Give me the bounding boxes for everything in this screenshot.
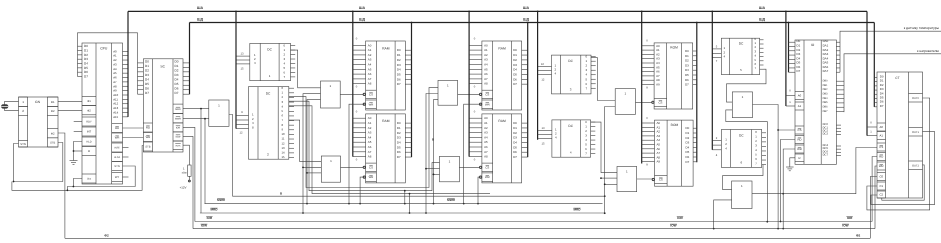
svg-text:C2: C2 <box>879 193 883 197</box>
SHA drop to DC5 DC6 <box>711 11 713 149</box>
svg-text:A6: A6 <box>484 72 488 76</box>
svg-text:A9: A9 <box>657 160 661 164</box>
wire RAM2 WR to MWR <box>360 177 364 204</box>
or-gate F <box>617 167 637 192</box>
wire MWR tap vertical <box>404 191 406 204</box>
wire SC IOR down <box>183 127 195 221</box>
svg-text:DB0: DB0 <box>823 80 828 83</box>
svg-text:D2: D2 <box>397 131 401 135</box>
svg-text:DB7: DB7 <box>823 110 828 113</box>
svg-text:DC: DC <box>739 42 744 46</box>
svg-text:Ucc: Ucc <box>87 178 92 181</box>
svg-text:A5: A5 <box>484 67 488 71</box>
wire gate H to CT CS <box>752 148 877 194</box>
svg-text:ROM: ROM <box>671 123 679 127</box>
CPU D stubs <box>78 46 83 76</box>
svg-text:ШД: ШД <box>197 17 204 21</box>
svg-text:Ф2: Ф2 <box>51 109 55 113</box>
svg-text:D7: D7 <box>686 160 690 164</box>
svg-text:12: 12 <box>541 78 544 81</box>
svg-text:D0: D0 <box>685 49 689 53</box>
svg-text:D4: D4 <box>513 68 517 72</box>
svg-text:OUT2: OUT2 <box>912 164 919 167</box>
svg-text:C1: C1 <box>879 184 883 188</box>
DC5 input stubs <box>712 45 721 63</box>
svg-text:A1: A1 <box>484 48 488 52</box>
svg-text:D3: D3 <box>686 141 690 145</box>
junction on SHA <box>468 11 470 13</box>
SHD drop from SC D pins <box>189 23 191 95</box>
RAM2 D stubs <box>405 123 411 157</box>
ground under CPU <box>70 161 78 165</box>
SHA drop to RAM3 RAM4 A <box>468 11 470 156</box>
junction on SHA <box>235 11 237 13</box>
svg-text:CT: CT <box>895 76 899 80</box>
wire RAM4 WR to MWR <box>478 177 481 204</box>
svg-text:A5: A5 <box>368 140 372 144</box>
svg-text:DC: DC <box>568 124 573 128</box>
svg-text:A4: A4 <box>484 63 488 67</box>
wire gate C to RAM3 CS <box>458 93 481 95</box>
wire MRD tap to gates A B <box>303 94 321 213</box>
svg-text:OUT1: OUT1 <box>912 131 919 134</box>
wire MWR tap to gates A B <box>307 100 321 204</box>
svg-text:кОм: кОм <box>182 171 187 174</box>
wire RAM3 WR to MWR <box>464 104 481 203</box>
crystal BQ1 <box>2 105 8 109</box>
svg-text:CS: CS <box>879 145 883 149</box>
svg-text:D5: D5 <box>686 150 690 154</box>
SHA drop to DC1 DC2 <box>235 11 237 128</box>
RAM4 A stubs <box>469 111 482 162</box>
svg-text:CS: CS <box>369 165 373 169</box>
wire CPU SYN loop <box>12 166 135 190</box>
junction on SHD <box>696 22 698 24</box>
svg-text:RD: RD <box>115 126 119 130</box>
wire GN STB down to loop <box>14 143 63 182</box>
decoder DC5 <box>721 37 759 75</box>
svg-text:DC: DC <box>739 133 744 137</box>
svg-text:Ф2: Ф2 <box>51 131 55 135</box>
svg-text:D7: D7 <box>175 91 179 95</box>
svg-text:ША: ША <box>359 6 366 10</box>
svg-text:RAM: RAM <box>498 119 506 123</box>
svg-text:D3: D3 <box>513 63 517 67</box>
svg-text:D5: D5 <box>397 72 401 76</box>
wire CT OUT2 loop <box>882 165 924 200</box>
wire CT OUT0 to C1 <box>867 98 930 210</box>
svg-text:DA7: DA7 <box>823 69 829 73</box>
svg-text:DC: DC <box>266 91 271 95</box>
decoder DC1 <box>250 43 291 80</box>
svg-text:D7: D7 <box>397 155 401 159</box>
wire DC2 out to gate D <box>289 101 440 191</box>
DC3 input stubs <box>538 63 552 82</box>
junction on SHA <box>711 11 713 13</box>
svg-text:D4: D4 <box>175 77 179 81</box>
wire gate E to ROM1 CS <box>636 101 653 103</box>
svg-text:Ф2: Ф2 <box>87 108 91 112</box>
svg-text:DB6: DB6 <box>823 106 828 109</box>
svg-text:MRD: MRD <box>175 108 181 111</box>
SHA drop to DC3 DC4 <box>537 11 539 139</box>
svg-text:D7: D7 <box>513 82 517 86</box>
svg-text:CS: CS <box>798 128 802 132</box>
wire gate B to RAM2 CS <box>341 166 365 168</box>
svg-text:A3: A3 <box>368 58 372 62</box>
SHA drop to RAM1 RAM2 A <box>352 11 354 156</box>
svg-text:D0: D0 <box>513 48 517 52</box>
svg-text:D3: D3 <box>685 63 689 67</box>
junction on SHA <box>352 11 354 13</box>
svg-text:D7: D7 <box>145 91 149 95</box>
svg-text:D0: D0 <box>145 60 149 64</box>
wire DC6 out7 loop to gate H <box>723 165 763 190</box>
svg-text:Ф1: Ф1 <box>87 99 91 103</box>
svg-text:11: 11 <box>282 137 285 141</box>
svg-text:12: 12 <box>240 131 243 134</box>
svg-text:D4: D4 <box>397 141 401 145</box>
svg-text:DC: DC <box>267 48 272 52</box>
svg-text:STB: STB <box>145 146 150 149</box>
svg-text:A6: A6 <box>368 72 372 76</box>
SC left D stubs <box>138 63 144 94</box>
wire CPU WR to SC WR <box>123 137 144 139</box>
svg-text:A4: A4 <box>484 135 488 139</box>
svg-text:D3: D3 <box>145 73 149 77</box>
RAM D3 <box>480 41 522 110</box>
svg-text:D6: D6 <box>686 155 690 159</box>
svg-text:A0: A0 <box>484 43 488 47</box>
svg-text:D4: D4 <box>686 145 690 149</box>
svg-text:D3: D3 <box>397 136 401 140</box>
CPU RDY stub <box>74 121 82 123</box>
DC1 input stubs <box>236 52 250 70</box>
RAM3 D stubs <box>522 50 528 84</box>
svg-text:WR: WR <box>879 164 884 168</box>
or-gate D <box>440 156 460 182</box>
CPU D bus wrap to SC <box>78 33 138 95</box>
svg-text:ШД: ШД <box>359 17 366 21</box>
svg-text:RDY: RDY <box>86 121 92 124</box>
wire IOW to IO WR <box>783 149 795 229</box>
or-gate D1 memory <box>209 100 229 126</box>
svg-text:15: 15 <box>542 142 545 145</box>
svg-text:к датчику температуры: к датчику температуры <box>904 26 940 30</box>
svg-text:D1: D1 <box>175 64 179 68</box>
svg-text:13: 13 <box>282 146 286 150</box>
svg-text:D5: D5 <box>175 82 179 86</box>
junction on SHA <box>537 11 539 13</box>
svg-text:CPU: CPU <box>100 47 108 51</box>
svg-text:D1: D1 <box>513 126 517 130</box>
wire GN F1 to CPU F1 <box>58 100 82 102</box>
svg-text:C0: C0 <box>879 175 883 179</box>
svg-text:DB4: DB4 <box>823 97 828 100</box>
RAM1 A stubs <box>353 38 366 89</box>
or-gate G <box>732 92 752 118</box>
svg-text:D2: D2 <box>686 136 690 140</box>
IO DC stubs <box>836 125 841 155</box>
svg-text:D0: D0 <box>397 121 401 125</box>
svg-text:D2: D2 <box>145 69 149 73</box>
svg-text:D1: D1 <box>397 53 401 57</box>
RAM D2 <box>363 114 405 183</box>
wire crystal to GN pin1 <box>5 101 19 104</box>
wire RAM1 WR to MWR <box>349 104 364 203</box>
wire gate D1 out to select line <box>229 115 605 197</box>
svg-text:A6: A6 <box>484 145 488 149</box>
svg-text:CS: CS <box>658 100 662 104</box>
DC5 output stubs <box>760 40 764 69</box>
svg-text:A8: A8 <box>368 155 372 159</box>
svg-text:DB5: DB5 <box>823 101 828 104</box>
IOW control line <box>193 228 875 230</box>
heater bus line <box>844 54 941 112</box>
svg-text:Ф2: Ф2 <box>856 233 861 237</box>
decoder DC2 <box>249 86 289 159</box>
svg-text:D6: D6 <box>513 77 517 81</box>
svg-text:D7: D7 <box>84 75 88 79</box>
svg-text:WR: WR <box>369 175 374 179</box>
wire gate D to RAM4 CS <box>459 166 480 168</box>
svg-text:A2: A2 <box>484 126 488 130</box>
svg-text:D3: D3 <box>175 73 179 77</box>
DC6 input stubs <box>712 137 721 157</box>
svg-text:A1: A1 <box>484 121 488 125</box>
svg-text:A1: A1 <box>798 104 802 108</box>
F2 clock line <box>65 237 870 239</box>
svg-text:15: 15 <box>241 67 244 70</box>
CPU WT stub <box>123 176 129 178</box>
svg-text:D5: D5 <box>145 82 149 86</box>
parallel port IO <box>795 39 836 164</box>
svg-text:WR: WR <box>797 147 802 151</box>
svg-text:A3: A3 <box>484 131 488 135</box>
svg-text:D6: D6 <box>397 150 401 154</box>
svg-text:D7: D7 <box>513 155 517 159</box>
svg-text:R: R <box>798 156 800 160</box>
svg-text:ША: ША <box>523 6 530 10</box>
svg-text:RD: RD <box>797 138 801 142</box>
svg-text:A2: A2 <box>484 53 488 57</box>
svg-text:D3: D3 <box>397 63 401 67</box>
DC2 output stubs <box>289 88 294 157</box>
IOR control line <box>195 221 872 223</box>
svg-text:GN: GN <box>35 100 41 104</box>
svg-text:10: 10 <box>282 132 286 136</box>
SHA drop to ROM A <box>641 11 643 163</box>
svg-text:A4: A4 <box>368 63 372 67</box>
CPU INT stub <box>74 131 82 133</box>
DC2 input stubs <box>236 111 249 134</box>
RAM3 A stubs <box>469 38 482 89</box>
ROM1 A stubs <box>642 40 654 90</box>
svg-text:INTA: INTA <box>176 144 181 147</box>
svg-text:D7: D7 <box>797 69 801 73</box>
CT D stubs <box>874 78 877 107</box>
svg-text:CS: CS <box>485 93 489 97</box>
svg-text:D6: D6 <box>397 77 401 81</box>
svg-text:D7: D7 <box>880 104 884 108</box>
svg-text:HLD: HLD <box>86 141 91 144</box>
svg-text:RD: RD <box>879 155 883 159</box>
svg-text:D2: D2 <box>685 59 689 63</box>
svg-text:A3: A3 <box>484 58 488 62</box>
decoder DC6 <box>721 130 761 168</box>
svg-text:OUT0: OUT0 <box>912 97 919 100</box>
svg-text:HLDA: HLDA <box>114 156 121 159</box>
svg-text:Ф1: Ф1 <box>51 100 55 104</box>
wire loop to SC STB <box>67 146 143 191</box>
or-gate C <box>438 80 458 105</box>
svg-text:A0: A0 <box>880 125 884 129</box>
svg-text:ША: ША <box>197 6 204 10</box>
DC6 output stubs <box>762 133 766 165</box>
svg-text:A7: A7 <box>484 77 488 81</box>
svg-text:D2: D2 <box>513 131 517 135</box>
or-gate B <box>321 156 340 182</box>
wire MWR tap to gates C D <box>434 100 439 204</box>
svg-text:A6: A6 <box>368 145 372 149</box>
svg-text:D1: D1 <box>397 126 401 130</box>
decoder DC3 <box>552 55 592 94</box>
svg-text:D4: D4 <box>145 77 149 81</box>
wire IOW to CT WR <box>875 166 877 229</box>
MRD control line <box>200 212 605 214</box>
sensor bus line <box>840 31 941 72</box>
ROM1 D stubs <box>693 51 697 85</box>
svg-text:A0: A0 <box>368 116 372 120</box>
svg-text:STB: STB <box>50 142 55 145</box>
wire IOR loop to gate G <box>726 110 768 222</box>
system controller SC <box>143 59 183 152</box>
svg-text:D5: D5 <box>513 145 517 149</box>
wire MRD tap vertical <box>409 194 411 213</box>
junction on SHA <box>641 11 643 13</box>
CPU HLDA stub <box>123 156 129 158</box>
wire CPU RD to SC RD <box>123 127 144 129</box>
SHA drop to CT A0 A1 <box>866 11 868 135</box>
svg-text:D0: D0 <box>397 48 401 52</box>
svg-text:A0: A0 <box>484 116 488 120</box>
svg-text:SC: SC <box>160 65 165 69</box>
ROM2 A stubs <box>642 117 655 167</box>
svg-text:+12V: +12V <box>180 186 187 190</box>
svg-text:WR: WR <box>146 135 151 139</box>
svg-text:13: 13 <box>542 127 545 130</box>
SHD drop to IO D <box>788 23 790 73</box>
svg-text:D4: D4 <box>397 68 401 72</box>
svg-text:A5: A5 <box>368 67 372 71</box>
wire SC IOW down <box>183 136 193 228</box>
ROM D6 <box>652 120 693 186</box>
wire SC MWR to gate and MWR line <box>183 118 209 120</box>
svg-text:D5: D5 <box>685 73 689 77</box>
RAM2 A stubs <box>353 111 366 162</box>
svg-text:CS: CS <box>369 93 373 97</box>
svg-text:A2: A2 <box>368 53 372 57</box>
svg-text:ROM: ROM <box>670 46 678 50</box>
svg-text:D0: D0 <box>686 126 690 130</box>
svg-text:DB1: DB1 <box>823 84 828 87</box>
svg-text:A7: A7 <box>368 150 372 154</box>
CT A0 A1 stubs <box>867 126 877 128</box>
wire CPU HLD R to ground <box>73 142 82 161</box>
svg-text:DC7: DC7 <box>823 153 829 156</box>
SC right D stubs <box>183 63 190 94</box>
svg-text:D7: D7 <box>397 82 401 86</box>
IO DA stubs <box>836 42 840 72</box>
wire resistor to +12V <box>188 176 190 180</box>
svg-text:RD: RD <box>146 126 150 130</box>
wire MRD tap to gates C D <box>426 94 438 214</box>
decoder DC4 <box>552 120 591 157</box>
SHD drop to RAM1 RAM2 D <box>411 23 413 158</box>
SHD drop to RAM3 RAM4 D <box>527 23 529 158</box>
svg-text:D6: D6 <box>175 86 179 90</box>
svg-text:DC: DC <box>568 59 573 63</box>
svg-text:DB3: DB3 <box>823 93 828 96</box>
svg-text:IOW: IOW <box>176 136 182 139</box>
svg-text:ШД: ШД <box>759 17 766 21</box>
DC3 output stubs <box>591 57 596 89</box>
wire DC2 out spare run <box>289 106 490 194</box>
wire IOR to IO RD <box>781 140 796 222</box>
wire IOR to CT RD <box>872 157 877 222</box>
svg-text:13: 13 <box>241 52 244 55</box>
svg-text:D1: D1 <box>513 53 517 57</box>
svg-text:12: 12 <box>282 141 286 145</box>
svg-text:D5: D5 <box>513 72 517 76</box>
counter timer CT <box>877 72 923 198</box>
SHD drop to ROM D <box>696 23 698 163</box>
wire CT OUT1 to C2 <box>871 132 935 205</box>
or-gate H <box>732 181 752 209</box>
or-gate E <box>615 89 635 115</box>
svg-text:WR: WR <box>485 102 490 106</box>
svg-text:D1: D1 <box>685 54 689 58</box>
ROM2 D stubs <box>693 128 697 162</box>
svg-text:D6: D6 <box>685 78 689 82</box>
svg-text:к нагревателю: к нагревателю <box>917 49 939 53</box>
svg-text:SYN: SYN <box>20 143 26 146</box>
svg-text:WT: WT <box>115 175 120 179</box>
svg-text:CS: CS <box>659 178 663 182</box>
svg-text:Ф2: Ф2 <box>104 233 109 237</box>
wire DC2 out to gate C <box>289 88 438 188</box>
RAM D4 <box>480 114 522 183</box>
IO D stubs <box>789 42 796 72</box>
wire GN F2 down to F2 bottom line <box>58 133 65 238</box>
wire DC1 out1 to gate A <box>291 50 321 88</box>
svg-text:D6: D6 <box>513 150 517 154</box>
svg-text:A15: A15 <box>113 115 118 119</box>
MWR control line <box>205 203 603 205</box>
junction on SHD <box>411 22 413 24</box>
wire MRD to gates E F <box>605 107 616 214</box>
svg-text:CS: CS <box>485 165 489 169</box>
resistor R1 1kOhm <box>188 165 191 176</box>
CPU A stubs <box>123 51 129 117</box>
svg-text:D2: D2 <box>175 69 179 73</box>
svg-text:INTE: INTE <box>114 147 120 150</box>
svg-text:A8: A8 <box>484 155 488 159</box>
svg-text:A8: A8 <box>484 82 488 86</box>
RAM4 D stubs <box>522 123 528 157</box>
svg-text:D1: D1 <box>145 64 149 68</box>
svg-text:D4: D4 <box>685 68 689 72</box>
